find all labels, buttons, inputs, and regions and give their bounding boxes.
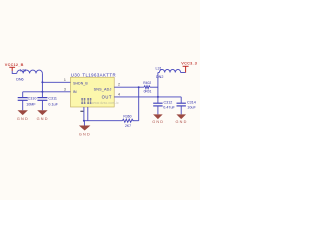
svg-text:U30: U30 [71, 72, 80, 77]
svg-text:GND: GND [17, 117, 29, 121]
svg-text:L30: L30 [20, 68, 26, 72]
svg-text:GND: GND [152, 120, 164, 124]
svg-text:DN2: DN2 [156, 75, 163, 79]
svg-text:2: 2 [118, 83, 120, 87]
svg-text:3: 3 [64, 87, 66, 91]
svg-text:OUT: OUT [102, 94, 112, 99]
svg-text:C311: C311 [48, 97, 57, 101]
svg-text:4: 4 [118, 92, 120, 96]
svg-text:1: 1 [64, 78, 66, 82]
svg-text:0.1uF: 0.1uF [48, 102, 58, 106]
svg-text:L31: L31 [156, 66, 162, 70]
svg-text:IN: IN [73, 90, 77, 94]
svg-text:GND: GND [79, 132, 91, 136]
svg-text:VCC12_B: VCC12_B [5, 63, 24, 67]
svg-text:0.47uF: 0.47uF [163, 105, 175, 109]
svg-text:SNS_ADJ: SNS_ADJ [94, 87, 112, 91]
svg-text:C312: C312 [164, 100, 173, 104]
svg-text:SHDN_B: SHDN_B [73, 81, 88, 85]
svg-text:GND: GND [176, 120, 188, 124]
svg-text:10uF: 10uF [187, 105, 196, 109]
svg-text:TL1963AKTTR: TL1963AKTTR [82, 72, 116, 77]
svg-text:VCC3_3: VCC3_3 [181, 61, 197, 65]
svg-text:R360: R360 [123, 114, 131, 118]
svg-text:C314: C314 [187, 100, 196, 104]
svg-text:C310: C310 [28, 97, 37, 101]
svg-text:10MF: 10MF [26, 103, 36, 107]
svg-text:DN6: DN6 [16, 78, 23, 82]
svg-text:0R01: 0R01 [144, 90, 152, 94]
svg-text:GND: GND [37, 117, 49, 121]
svg-text:R402: R402 [143, 81, 151, 85]
svg-text:2K7: 2K7 [125, 124, 131, 128]
svg-text:www.dzsc.com-ic: www.dzsc.com-ic [92, 101, 119, 105]
svg-text:8: 8 [84, 101, 86, 105]
